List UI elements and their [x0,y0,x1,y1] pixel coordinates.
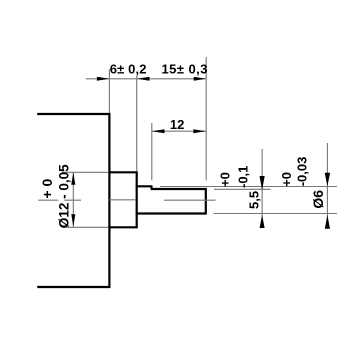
arrow left at boss edge [137,77,150,81]
dimension line 6/15 [86,78,207,80]
motor body outline [38,114,109,287]
shaft outline with flat step [137,186,206,213]
extension line boss top (Ø12 dim) [62,171,109,173]
svg-text:5,5: 5,5 [247,191,262,209]
dimension line 5,5 [261,149,263,227]
extension line boss right edge (top dim) [136,76,138,171]
arrow down to shaft top [325,173,330,187]
svg-text:-0,03: -0,03 [294,157,309,187]
extension line boss bottom (Ø12 dim) [62,226,109,228]
arrow up to shaft bottom [325,215,330,229]
arrow right at body edge [97,77,110,81]
arrow up to shaft bottom [260,215,265,228]
arrow right at shaft end (12 dim) [193,129,206,133]
svg-text:12: 12 [170,117,184,132]
svg-text:+0: +0 [279,172,294,187]
arrow down to flat top [260,176,265,190]
centerline [38,199,215,201]
extension line flat top (5,5 dim) [214,188,271,190]
svg-text:15± 0,3: 15± 0,3 [162,61,208,76]
dimension line Ø6 [326,143,328,229]
dimension line Ø12 [72,172,74,227]
svg-text:+ 0: + 0 [39,179,55,199]
arrow up boss top [71,172,75,184]
arrow down boss bottom [71,214,75,226]
svg-text:-0,1: -0,1 [235,166,250,188]
svg-text:+0: +0 [218,172,233,187]
svg-text:Ø12 - 0,05: Ø12 - 0,05 [57,164,72,228]
extension line shaft bottom (5,5 and Ø6 dims) [214,213,337,215]
extension line flat start (12 dim) [151,123,153,180]
extension line shaft end (top dims) [205,57,207,180]
arrow left at flat start [152,129,165,133]
svg-text:6± 0,2: 6± 0,2 [110,61,147,76]
flange boss outline [109,172,136,227]
arrow right at shaft end [194,77,207,81]
svg-text:Ø6: Ø6 [310,190,326,209]
dimension line 12 [152,130,206,132]
extension line body right edge (top dim) [108,69,110,113]
extension line shaft top (5,5 and Ø6 dims) [160,186,337,188]
